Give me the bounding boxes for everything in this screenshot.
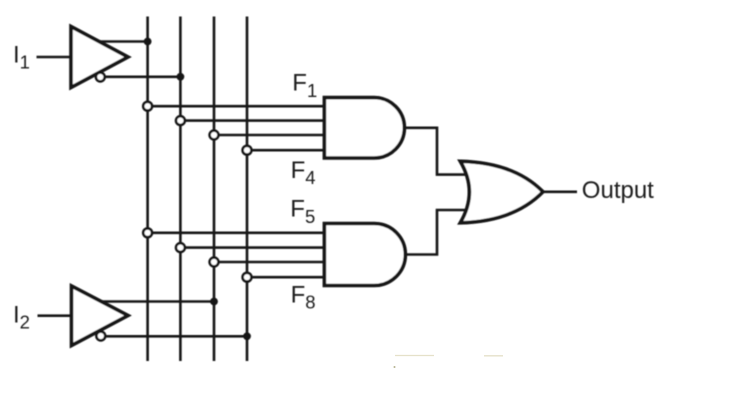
svg-text:Output: Output: [582, 177, 654, 204]
AND gate (F1-F4): [324, 98, 404, 158]
wire: bus line 2 (vertical): [179, 17, 182, 362]
wire: bottom AND output elbow to OR input 2: [405, 210, 470, 255]
wire: tap F3 to top AND input 3: [216, 134, 326, 137]
wire: buffer I1 inverted output: [104, 76, 180, 79]
wire: input I2: [38, 314, 72, 317]
label F8: [291, 281, 316, 312]
wire: bus line 1 (vertical): [146, 17, 149, 362]
label F4: [291, 157, 316, 188]
node: tap circle on bus 3 (F3): [210, 131, 219, 140]
OR gate U3: [460, 161, 543, 223]
node: tap circle on bus 2 (F2): [176, 116, 185, 125]
inversion bubble on I2: [96, 332, 105, 341]
wire: tap F5 to bottom AND input 1: [150, 232, 326, 235]
wire: buffer I2 inverted output: [105, 335, 247, 338]
wire: bus line 3 (vertical): [213, 17, 216, 362]
wire: OR output: [543, 191, 577, 194]
junction dot: I1 inverted output to bus 2: [177, 73, 185, 81]
wire: top AND output elbow to OR input 1: [404, 128, 470, 175]
wire: bus line 4 (vertical): [246, 17, 249, 362]
wire: tap F4 to top AND input 4: [249, 149, 326, 152]
wire: tap F7 to bottom AND input 3: [216, 261, 326, 264]
node: tap circle on bus 1 (F1): [143, 102, 152, 111]
buffer I2 (triangle): [72, 286, 129, 346]
wire: input I1: [37, 56, 72, 59]
label Output: [582, 177, 654, 204]
buffer I1 (triangle): [71, 27, 128, 88]
label I2: [13, 301, 30, 332]
junction dot: I2 true output to bus 3: [210, 298, 218, 306]
wire: tap F2 to top AND input 2: [183, 119, 326, 122]
wire: tap F6 to bottom AND input 2: [183, 246, 326, 249]
node: tap circle on bus 4 (F8): [243, 273, 252, 282]
wire: buffer I1 true output: [97, 40, 148, 43]
node: tap circle on bus 2 (F6): [176, 243, 185, 252]
AND gate (F5-F8): [324, 224, 405, 286]
node: tap circle on bus 4 (F4): [243, 146, 252, 155]
wire: tap F1 to top AND input 1: [150, 105, 326, 108]
wire: buffer I2 true output: [98, 300, 214, 303]
label F1: [292, 70, 317, 101]
label F5: [290, 196, 315, 227]
junction dot: I2 inverted output to bus 4: [243, 332, 251, 340]
inversion bubble on I1: [96, 73, 105, 82]
wire: tap F8 to bottom AND input 4: [249, 276, 326, 279]
label I1: [13, 41, 30, 72]
junction dot: I1 true output to bus 1: [144, 38, 152, 46]
node: tap circle on bus 3 (F7): [210, 258, 219, 267]
node: tap circle on bus 1 (F5): [143, 228, 152, 237]
